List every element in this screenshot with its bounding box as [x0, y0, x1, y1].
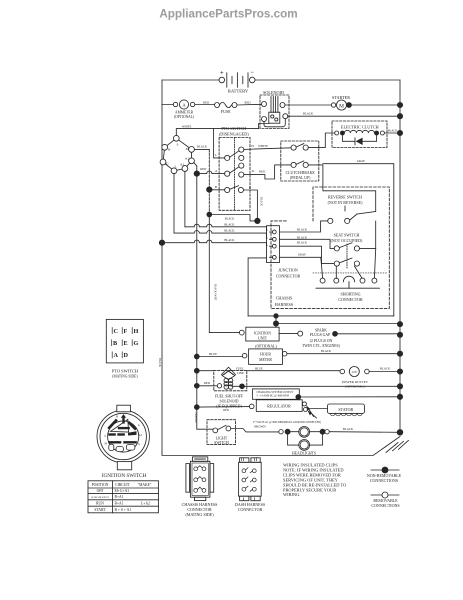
svg-text:A: A	[182, 102, 186, 107]
wire clutch/brake to electric clutch	[308, 133, 334, 148]
regulator top dot and wire to bus	[298, 397, 400, 400]
svg-text:H: H	[251, 144, 254, 148]
svg-text:GRAY: GRAY	[357, 159, 366, 163]
svg-text:"MAKE": "MAKE"	[138, 483, 152, 487]
reverse switch (not in reverse)	[328, 194, 376, 223]
seat switch (not occupied)	[331, 233, 376, 268]
svg-text:SEAT SWITCH: SEAT SWITCH	[334, 233, 360, 238]
ignition switch connector (physical)	[97, 405, 149, 479]
junction dot bus y324	[397, 322, 402, 327]
svg-text:SWITCH: SWITCH	[214, 441, 229, 445]
svg-text:H: H	[134, 328, 139, 335]
wire battery- to right bus	[255, 79, 400, 81]
PTO switch mating side	[106, 319, 143, 378]
svg-text:B: B	[215, 185, 217, 189]
ignition switch table	[88, 481, 158, 513]
junction dot B-row	[207, 187, 212, 192]
svg-text:WHITE: WHITE	[258, 144, 268, 148]
harness row3 black with hops	[162, 240, 267, 246]
wire D red	[244, 165, 291, 179]
svg-text:POWER OUTLET: POWER OUTLET	[342, 380, 369, 384]
svg-text:(MATING SIDE): (MATING SIDE)	[185, 512, 214, 517]
svg-text:B: B	[168, 147, 171, 151]
svg-text:BLACK: BLACK	[297, 241, 308, 245]
svg-text:RUN: RUN	[96, 501, 104, 505]
vertical rail x=196.8	[197, 166, 213, 429]
svg-text:CIRCUIT: CIRCUIT	[115, 483, 130, 487]
gray return L-wire into pin4	[248, 258, 266, 316]
svg-text:CONNECTOR: CONNECTOR	[238, 507, 263, 512]
starter motor	[331, 95, 350, 110]
svg-text:A: A	[215, 169, 218, 173]
svg-text:M: M	[186, 147, 189, 151]
svg-text:C: C	[215, 153, 217, 157]
wire starter to bus	[347, 104, 401, 106]
svg-text:M+G+A1: M+G+A1	[115, 489, 130, 493]
wire C up to white row	[214, 129, 225, 158]
svg-text:SOLENOID: SOLENOID	[220, 400, 239, 404]
svg-text:BROWN: BROWN	[254, 424, 266, 428]
svg-text:BLACK: BLACK	[260, 197, 263, 206]
wire battery+ to left rail	[162, 79, 219, 81]
svg-text:12V: 12V	[351, 370, 357, 374]
frame ground diagonal	[162, 437, 400, 456]
svg-text:CHARGING SYSTEM OUTPUT: CHARGING SYSTEM OUTPUT	[257, 391, 294, 394]
svg-text:RED: RED	[259, 170, 266, 174]
fuel shut-off solenoid box	[214, 367, 247, 391]
svg-text:B + S + A1: B + S + A1	[115, 508, 132, 512]
svg-text:(PEDAL UP): (PEDAL UP)	[290, 176, 311, 180]
svg-text:S: S	[177, 143, 179, 147]
wire left rail vertical x=162 (battery feed / ground run)	[161, 80, 163, 455]
legend removable	[371, 492, 400, 508]
wire fuse to solenoid	[237, 103, 262, 106]
wire A2 down to row1	[184, 171, 186, 226]
svg-text:G: G	[249, 185, 252, 189]
wire to fuel solenoid	[197, 385, 218, 387]
dash harness connector	[235, 458, 265, 512]
svg-text:(OPTIONAL): (OPTIONAL)	[174, 115, 195, 119]
right bus vertical	[399, 80, 401, 433]
svg-text:PTO SWITCH: PTO SWITCH	[112, 368, 139, 373]
svg-text:JUNCTION: JUNCTION	[278, 268, 298, 273]
wire M black	[194, 148, 209, 150]
svg-text:SHORTING: SHORTING	[341, 292, 361, 297]
svg-text:BLACK: BLACK	[343, 427, 354, 431]
svg-text:CONNECTOR: CONNECTOR	[276, 274, 301, 279]
junction connector	[267, 226, 301, 279]
svg-text:M: M	[339, 103, 344, 109]
wire B row	[209, 189, 224, 191]
svg-text:(OPTIONAL): (OPTIONAL)	[255, 344, 277, 348]
junction dot A-row	[194, 171, 199, 176]
svg-text:IGNITION: IGNITION	[254, 331, 271, 335]
svg-text:D: D	[252, 169, 255, 173]
hour meter (optional)	[242, 344, 287, 364]
svg-text:BLACK+WHT: BLACK+WHT	[214, 284, 217, 301]
wire fuel row to 12V outlet	[197, 370, 340, 372]
svg-text:SOLENOID: SOLENOID	[263, 90, 284, 95]
ammeter (optional)	[173, 100, 195, 119]
wire pin1 black to reverse switch	[280, 221, 328, 232]
wire H white to clutch/brake	[244, 148, 291, 150]
wire 12V outlet to bus black	[369, 371, 400, 373]
wire A1 to rail x=196.8	[194, 163, 197, 167]
svg-text:HARNESS: HARNESS	[275, 302, 293, 307]
svg-text:L: L	[174, 165, 176, 169]
junction dot bus/starter	[397, 102, 402, 107]
junction dot bus y116	[397, 114, 402, 119]
svg-text:BLACK: BLACK	[388, 129, 397, 132]
fuse F1	[215, 102, 238, 114]
svg-text:BLUE: BLUE	[209, 352, 217, 356]
svg-text:(NOT IN REVERSE): (NOT IN REVERSE)	[328, 200, 363, 205]
svg-text:SPARK: SPARK	[315, 328, 327, 332]
harness row1 black with hops	[185, 224, 267, 230]
svg-text:B: B	[116, 416, 118, 419]
wiring insulated clips note	[283, 463, 346, 498]
svg-text:BLACK: BLACK	[297, 236, 308, 240]
solenoid	[260, 90, 289, 129]
svg-text:B: B	[113, 340, 117, 347]
svg-text:POSITION: POSITION	[92, 483, 109, 487]
chassis harness connector (mating side)	[182, 457, 218, 517]
wire to regulator	[197, 406, 250, 409]
svg-text:HEADLIGHTS: HEADLIGHTS	[292, 452, 316, 456]
electric clutch	[332, 121, 387, 148]
junction dot rail y371	[194, 368, 199, 373]
svg-text:W/HEADLIGHTS: W/HEADLIGHTS	[91, 496, 110, 499]
svg-text:CONNECTIONS: CONNECTIONS	[371, 503, 399, 508]
clutch/brake switch (pedal up)	[281, 141, 319, 181]
junction dot bus y371	[397, 369, 402, 374]
spark plugs	[279, 328, 400, 348]
chassis harness dashed boundary	[271, 187, 389, 308]
svg-text:G: G	[134, 340, 139, 347]
wire ignition unit top to bus	[276, 316, 400, 327]
svg-text:(NOT OCCUPIED): (NOT OCCUPIED)	[331, 238, 363, 243]
svg-text:PLUGS GAP: PLUGS GAP	[310, 333, 331, 337]
svg-text:BLACK: BLACK	[224, 229, 235, 233]
svg-text:REVERSE SWITCH: REVERSE SWITCH	[328, 194, 362, 199]
svg-text:B+A1: B+A1	[115, 495, 124, 499]
wire to hour meter	[197, 356, 243, 358]
svg-text:BLACK: BLACK	[380, 367, 391, 371]
svg-text:A: A	[114, 352, 119, 359]
svg-text:A1: A1	[139, 434, 143, 437]
svg-text:WIRING.: WIRING.	[283, 492, 300, 497]
svg-text:ELECTRIC CLUTCH: ELECTRIC CLUTCH	[341, 125, 379, 130]
wire clutch/brake lower-right to reverse switch / gray	[308, 165, 375, 211]
stator	[308, 404, 365, 416]
svg-text:GRAY: GRAY	[298, 253, 307, 257]
svg-text:C: C	[114, 328, 118, 335]
svg-text:G: G	[166, 161, 169, 165]
wire clutch to bus BLACK	[384, 132, 400, 134]
ignition key switch symbol	[160, 135, 194, 173]
svg-text:AppliancePartsPros.com: AppliancePartsPros.com	[159, 8, 297, 21]
wire solenoid BLACK to bus	[288, 115, 400, 117]
wire solenoid to starter	[285, 104, 331, 106]
headlights	[279, 427, 323, 456]
svg-text:BLUE: BLUE	[255, 366, 263, 370]
svg-text:(2 PLUGS ON: (2 PLUGS ON	[310, 339, 333, 343]
frame hatches	[386, 440, 409, 452]
wire ammeter row	[162, 104, 215, 106]
node dot x257 y221	[255, 218, 260, 223]
ignition unit	[239, 327, 279, 341]
light switch	[207, 420, 236, 446]
svg-text:(OPTIONAL): (OPTIONAL)	[345, 385, 364, 389]
wire G down from PTO	[244, 190, 258, 219]
svg-text:M: M	[105, 443, 108, 446]
svg-text:LIGHT: LIGHT	[216, 436, 228, 440]
legend non-removable	[367, 467, 402, 483]
svg-text:CLUTCH/BRAKE: CLUTCH/BRAKE	[286, 171, 316, 175]
svg-text:BLACK: BLACK	[321, 349, 332, 353]
svg-text:METER: METER	[259, 358, 272, 362]
wire gray to right side down	[323, 164, 394, 316]
wire reverse right down to shorting	[374, 221, 375, 278]
svg-text:A2: A2	[180, 162, 184, 166]
svg-text:RED: RED	[223, 409, 229, 412]
svg-text:TWIN CYL. ENGINES): TWIN CYL. ENGINES)	[302, 344, 341, 348]
svg-text:S: S	[104, 435, 106, 438]
junction dot left rail y242	[159, 240, 164, 245]
chassis bottom solid line	[248, 315, 394, 317]
junction dot rail y407	[194, 405, 199, 410]
svg-text:L+A2: L+A2	[141, 501, 150, 505]
svg-text:FUEL: FUEL	[236, 367, 244, 371]
wire hour meter to bus black	[287, 353, 400, 355]
junction dot rail x209 y214	[207, 212, 212, 217]
vertical black+wht rail from M	[208, 149, 210, 214]
svg-text:STARTER: STARTER	[332, 95, 350, 100]
PTO switch (disengaged)	[219, 126, 250, 210]
junction dot rail y386	[194, 383, 199, 388]
svg-text:(DISENGAGED): (DISENGAGED)	[219, 132, 249, 137]
svg-text:ORANGE: ORANGE	[194, 412, 197, 423]
svg-text:FUSE: FUSE	[221, 109, 231, 114]
svg-text:CONNECTIONS: CONNECTIONS	[370, 478, 398, 483]
svg-text:WHITE: WHITE	[182, 124, 192, 128]
junction dot ignition top	[273, 321, 278, 326]
junction dot bus y133	[397, 130, 402, 135]
svg-text:BLACK: BLACK	[303, 111, 314, 115]
svg-text:CHASSIS: CHASSIS	[276, 296, 292, 301]
harness row2 black with hops	[174, 231, 267, 239]
svg-text:RED: RED	[245, 101, 252, 105]
arrows to regulator terminals	[308, 408, 314, 417]
svg-text:BLACK: BLACK	[297, 227, 308, 231]
wire pin2 black to seat switch	[280, 239, 335, 248]
svg-text:STATOR: STATOR	[338, 407, 353, 412]
svg-text:REGULATOR: REGULATOR	[267, 404, 291, 409]
12V power outlet	[340, 367, 369, 389]
wire L down to row2	[173, 174, 175, 233]
svg-text:B+A1: B+A1	[115, 501, 124, 505]
svg-text:PTO SWITCH: PTO SWITCH	[221, 126, 246, 131]
svg-text:LINE: LINE	[237, 371, 244, 375]
svg-text:AMMETER: AMMETER	[175, 111, 194, 115]
svg-text:UNIT: UNIT	[258, 336, 268, 340]
charging system output note	[252, 389, 299, 399]
junction dot rail y356	[194, 354, 199, 359]
junction dot headlights	[320, 429, 325, 434]
svg-text:BLACK: BLACK	[224, 222, 235, 226]
svg-text:FUEL SHUT-OFF: FUEL SHUT-OFF	[215, 394, 243, 398]
wire pin4 gray to shorting connector	[280, 257, 323, 278]
shorting connector	[313, 266, 387, 302]
wire pin3 black	[280, 246, 335, 263]
svg-text:BLACK: BLACK	[158, 358, 161, 367]
junction dot bus end	[397, 430, 403, 436]
svg-text:CONNECTOR: CONNECTOR	[338, 297, 363, 302]
svg-text:E: E	[124, 340, 128, 347]
wire y214 jog to node dot	[209, 215, 255, 221]
junction dot bus y354	[397, 351, 402, 356]
wire light switch to headlights	[231, 429, 279, 432]
wire S white to solenoid trigger	[176, 124, 268, 136]
svg-text:D: D	[124, 352, 129, 359]
battery B1	[219, 70, 255, 94]
svg-text:BLACK: BLACK	[224, 238, 235, 242]
svg-text:G: G	[138, 443, 140, 446]
svg-text:A: A	[138, 424, 140, 427]
junction dot bus y335	[397, 332, 402, 337]
svg-text:A1: A1	[185, 156, 189, 160]
svg-text:(MATING SIDE): (MATING SIDE)	[112, 375, 138, 379]
svg-text:BLACK: BLACK	[225, 217, 234, 220]
svg-text:HOUR: HOUR	[260, 352, 271, 356]
svg-text:−: −	[250, 70, 254, 76]
svg-text:OFF: OFF	[97, 489, 104, 493]
svg-text:BLACK: BLACK	[197, 145, 208, 149]
svg-text:+: +	[220, 71, 224, 77]
wire A row with hop	[197, 171, 225, 174]
junction dot bus y386	[397, 384, 402, 389]
svg-text:RED: RED	[200, 167, 207, 171]
svg-text:RED: RED	[204, 381, 211, 385]
svg-text:5 - 14 AMP DC @ 3600 RPM: 5 - 14 AMP DC @ 3600 RPM	[257, 395, 290, 398]
regulator	[249, 400, 307, 412]
svg-text:IGNITION SWITCH: IGNITION SWITCH	[102, 473, 147, 479]
svg-text:BATTERY: BATTERY	[228, 89, 249, 94]
wire headlights to bus black	[329, 431, 400, 434]
fuel solenoid dot and wire to bus	[240, 384, 245, 389]
svg-text:RED: RED	[203, 101, 210, 105]
svg-text:START: START	[94, 508, 106, 512]
svg-text:F: F	[124, 328, 128, 335]
